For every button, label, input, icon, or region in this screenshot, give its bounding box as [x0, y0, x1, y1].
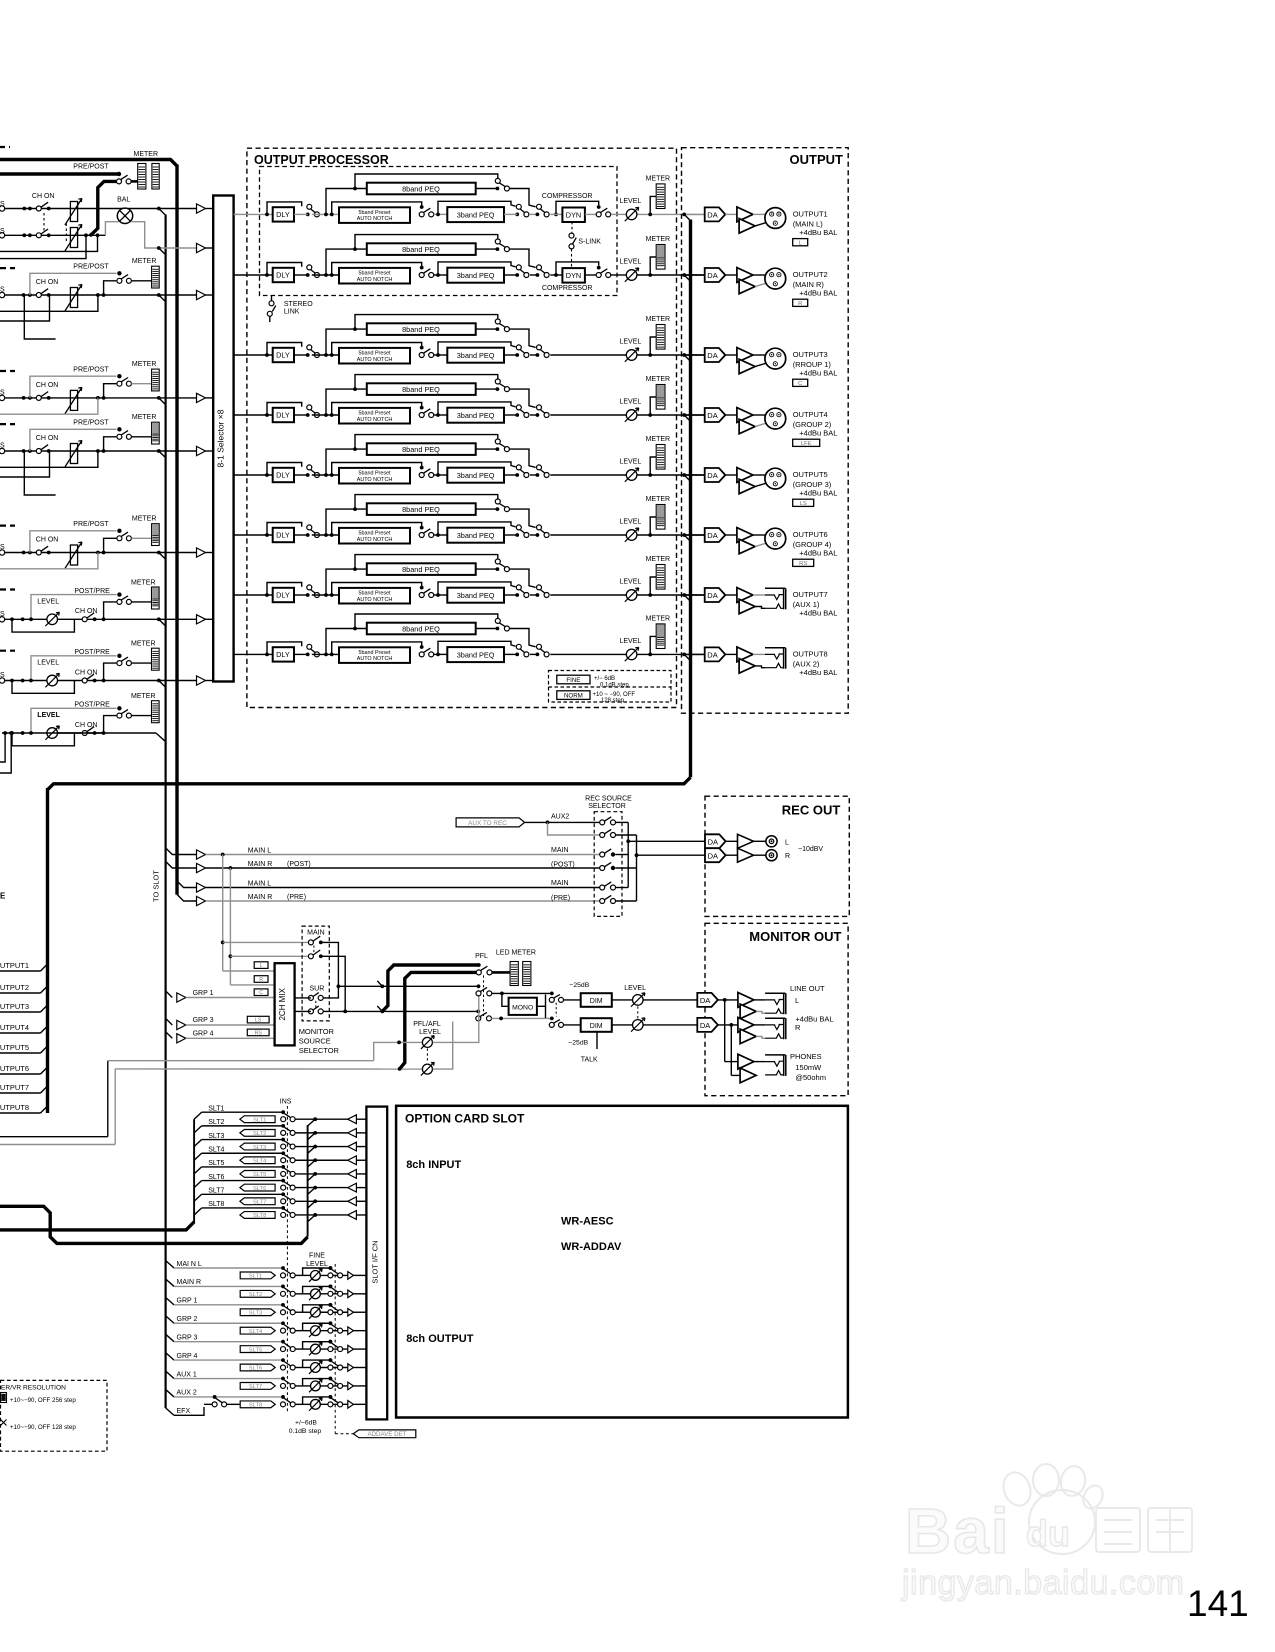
wire amp to rca L	[754, 840, 766, 842]
wire 8band input bracket	[326, 509, 367, 535]
svg-text:+4dBu BAL: +4dBu BAL	[799, 288, 837, 297]
svg-text:+4dBu BAL: +4dBu BAL	[799, 608, 837, 617]
wire da to amp	[725, 474, 737, 476]
wire 8band to sw4	[509, 389, 535, 407]
level pot	[626, 590, 637, 601]
svg-text:REC SOURCE: REC SOURCE	[585, 796, 632, 803]
wire L to 2ch mix	[223, 970, 275, 972]
switch after 5band	[420, 346, 424, 350]
dashed box main pair processor	[260, 167, 618, 296]
wire to meter junction	[638, 354, 705, 356]
svg-text:NORM: NORM	[564, 693, 583, 700]
switch dly bypass	[306, 593, 310, 597]
switch INS SLT4	[281, 1151, 285, 1155]
dac DA OUTPUT4	[705, 408, 726, 422]
dashed stub	[0, 423, 15, 425]
switch fine out SLT5	[329, 1340, 333, 1344]
wire to level	[611, 274, 627, 276]
node bus tap	[157, 551, 161, 555]
legend meter icon	[1, 1393, 7, 1403]
dac DA OUTPUT7	[705, 588, 726, 602]
dac DA rec L	[705, 834, 726, 848]
svg-text:+10~−90, OFF 128 step: +10~−90, OFF 128 step	[10, 1424, 76, 1431]
tag ADDAVE DET	[353, 1430, 416, 1438]
wire dly bypass bracket	[265, 533, 269, 537]
svg-text:3band PEQ: 3band PEQ	[457, 351, 495, 360]
svg-text:METER: METER	[646, 316, 671, 323]
wire 3band bypass bracket	[438, 641, 516, 654]
svg-text:+4dBu BAL: +4dBu BAL	[799, 428, 837, 437]
switch 8band out	[496, 387, 500, 391]
arrow to selector	[197, 615, 206, 624]
fader	[70, 545, 77, 565]
svg-text:EFX: EFX	[177, 1408, 191, 1415]
wire 8band input bracket	[326, 569, 367, 595]
wire 5band bypass bracket	[332, 403, 422, 416]
svg-text:GRP 3: GRP 3	[193, 1017, 214, 1024]
svg-text:SLT7: SLT7	[253, 1199, 266, 1205]
wire: channel line L2 y=235.3	[0, 233, 5, 238]
wire to level	[550, 534, 626, 536]
svg-text:LINK: LINK	[284, 309, 300, 316]
node bus tap	[157, 449, 161, 453]
level pot fine SLT3	[311, 1307, 321, 1317]
svg-text:TO SLOT: TO SLOT	[152, 870, 161, 902]
wire line	[5, 618, 47, 620]
wire knob out	[321, 1274, 348, 1276]
wire POST riser	[102, 293, 106, 297]
svg-text:MONITOR: MONITOR	[299, 1027, 335, 1036]
arrow card output	[348, 1364, 354, 1372]
wire bypass bracket	[303, 1286, 331, 1293]
label box RS	[793, 559, 814, 566]
svg-text:DA: DA	[707, 591, 717, 600]
switch fine in SLT3	[281, 1303, 285, 1307]
eq 8band PEQ	[367, 243, 476, 255]
switch after 3band	[515, 213, 519, 217]
wire PRE feed gray	[31, 656, 116, 681]
wire to level	[550, 594, 626, 596]
wire stub to collector	[308, 1133, 316, 1140]
svg-text:3band PEQ: 3band PEQ	[457, 591, 495, 600]
wire aux2 R drop	[548, 822, 603, 835]
switch mono R	[550, 1017, 554, 1021]
arrow to-slot	[197, 863, 206, 872]
node: dashed stub group1	[0, 146, 10, 148]
wire selector out stub	[615, 834, 636, 836]
switch fine in SLT6	[281, 1358, 285, 1362]
tag SLT6 ins	[240, 1184, 275, 1191]
node output bus tap	[682, 273, 686, 277]
svg-text:AUTO NOTCH: AUTO NOTCH	[357, 597, 393, 603]
svg-text:SLT1: SLT1	[249, 1274, 262, 1280]
switch after 3band	[515, 353, 519, 357]
wire meter feed	[131, 436, 151, 438]
switch dly bypass	[306, 653, 310, 657]
switch after 3band	[515, 533, 519, 537]
label box LFE	[793, 439, 820, 446]
tag SLT8 fine	[240, 1401, 275, 1408]
switch CH ON	[36, 550, 41, 555]
meter	[152, 524, 160, 546]
dashed stub	[0, 370, 15, 372]
svg-text:SLT7: SLT7	[249, 1384, 262, 1390]
wire da L out	[718, 999, 738, 1001]
svg-text:POST/PRE: POST/PRE	[74, 702, 110, 709]
svg-text:GRP 4: GRP 4	[177, 1353, 198, 1360]
svg-text:du: du	[1026, 1513, 1070, 1554]
wire line after pot	[58, 618, 197, 620]
svg-text:8band PEQ: 8band PEQ	[402, 565, 440, 574]
level pot fine SLT1	[311, 1271, 321, 1281]
wire dim to knob L	[612, 999, 633, 1001]
switch POST/PRE	[117, 592, 121, 596]
wire bypass bracket	[303, 1305, 331, 1312]
wire MAIN R PRE tap	[177, 894, 197, 901]
amplifier pair OUTPUT4	[737, 408, 753, 423]
wire 8band top bypass	[353, 507, 357, 511]
svg-text:LED METER: LED METER	[496, 950, 536, 957]
switch INS SLT7	[281, 1192, 285, 1196]
switch eq bypass	[536, 653, 540, 657]
wire: g1 return lines	[0, 235, 98, 251]
svg-text:L: L	[795, 996, 799, 1005]
eq 8band PEQ	[367, 383, 476, 395]
svg-text:SLOT I/F CN: SLOT I/F CN	[370, 1240, 379, 1283]
svg-text:PRE/POST: PRE/POST	[73, 264, 109, 271]
svg-text:LS: LS	[800, 501, 807, 507]
svg-text:MONITOR OUT: MONITOR OUT	[749, 929, 841, 944]
svg-text:OUTPUT4: OUTPUT4	[793, 410, 828, 419]
switch main L	[308, 940, 313, 945]
wire to level	[550, 354, 626, 356]
wire to level	[550, 653, 626, 655]
svg-text:DA: DA	[707, 471, 717, 480]
delay DLY row2	[273, 268, 294, 282]
wire 8band to sw4	[509, 509, 535, 527]
wire stub to collector	[308, 1147, 316, 1154]
wire PRE feed gray	[31, 708, 116, 733]
wire line	[5, 680, 47, 682]
dac DA OUTPUT6	[705, 528, 726, 542]
svg-text:POST/PRE: POST/PRE	[74, 649, 110, 656]
switch INS SLT2	[281, 1124, 285, 1128]
switch CH ON L1	[36, 206, 41, 211]
svg-text:METER: METER	[646, 176, 671, 183]
wire amp to xlr upper	[753, 354, 765, 356]
meter g1 right	[152, 164, 159, 190]
wire to card	[295, 1187, 348, 1189]
svg-text:+/− 6dB: +/− 6dB	[594, 676, 615, 682]
svg-text:OUTPUT PROCESSOR: OUTPUT PROCESSOR	[254, 153, 389, 167]
svg-text:GRP 4: GRP 4	[193, 1030, 214, 1037]
switch eq bypass	[536, 353, 540, 357]
wire knob out	[321, 1385, 348, 1387]
svg-text:LEVEL: LEVEL	[37, 660, 59, 667]
wire 5band bypass bracket	[332, 642, 422, 655]
wire to 3band	[434, 534, 448, 536]
svg-text:LEVEL: LEVEL	[620, 339, 642, 346]
wire: thick post pickup g1	[91, 181, 116, 235]
tag SLT7 ins	[240, 1198, 275, 1205]
terminal	[0, 395, 5, 400]
wire 8band to sw4	[509, 449, 535, 467]
wire amp to xlr upper	[753, 474, 765, 476]
wire under loop	[12, 681, 74, 694]
wire stub to collector	[308, 1215, 316, 1222]
dashed box MONITOR OUT	[705, 923, 848, 1095]
switch dly bypass	[306, 213, 310, 217]
svg-text:DA: DA	[700, 996, 710, 1005]
svg-text:DLY: DLY	[276, 271, 290, 280]
wire channel line	[5, 552, 197, 554]
legend NORM tag	[557, 691, 590, 700]
wire meter bracket	[650, 397, 656, 415]
svg-text:C: C	[798, 381, 802, 387]
wire amp to xlr upper	[753, 213, 765, 215]
svg-text:8band PEQ: 8band PEQ	[402, 325, 440, 334]
svg-text:OUTPUT6: OUTPUT6	[0, 1064, 29, 1073]
wire to 3band	[434, 274, 448, 276]
wire to 3band	[434, 213, 448, 215]
wire slot send label line AUX 1	[166, 1371, 174, 1379]
wire post riser	[104, 716, 117, 733]
switch 8band out	[496, 567, 500, 571]
svg-text:−25dB: −25dB	[568, 1040, 588, 1047]
svg-text:R: R	[795, 1023, 801, 1032]
wire 3band bypass bracket	[438, 462, 516, 475]
svg-text:DA: DA	[707, 531, 717, 540]
svg-text:5band Preset: 5band Preset	[358, 410, 391, 416]
switch 8band out	[496, 327, 500, 331]
node output bus tap	[682, 413, 686, 417]
switch INS SLT6	[281, 1179, 285, 1183]
switch after 5band	[420, 645, 424, 649]
meter	[152, 701, 160, 723]
wire 8band top bypass	[353, 327, 357, 331]
arrow card input	[348, 1197, 357, 1206]
wire to meter junction	[638, 653, 705, 655]
wire to card	[295, 1146, 348, 1148]
tag SLT2 fine	[240, 1290, 275, 1297]
svg-text:SLT6: SLT6	[249, 1366, 262, 1372]
switch fine in SLT8	[281, 1395, 285, 1399]
switch after 5band	[420, 586, 424, 590]
switch PFL R	[476, 1010, 480, 1014]
terminal	[0, 550, 5, 555]
wire knob out	[321, 1311, 348, 1313]
level pot monitor L	[633, 995, 644, 1006]
switch eq bypass	[536, 413, 540, 417]
wire knob out	[321, 1367, 348, 1369]
svg-text:jingyan.baidu.com: jingyan.baidu.com	[901, 1564, 1185, 1602]
wire to knob	[295, 1330, 310, 1332]
svg-text:3band PEQ: 3band PEQ	[457, 271, 495, 280]
svg-text:+/−6dB: +/−6dB	[295, 1419, 317, 1426]
svg-text:DYN: DYN	[566, 271, 581, 280]
switch CH ON	[36, 293, 41, 298]
wire meter feed	[131, 662, 151, 664]
svg-text:−10dBV: −10dBV	[798, 846, 823, 853]
wire slot send label line GRP 4	[166, 1353, 174, 1361]
switch after 5band	[420, 266, 424, 270]
svg-text:MONO: MONO	[512, 1005, 533, 1012]
svg-text:LEVEL: LEVEL	[624, 985, 646, 992]
svg-text:(POST): (POST)	[287, 861, 311, 868]
wire 3band bypass bracket	[438, 402, 516, 415]
switch after 3band	[515, 653, 519, 657]
fader	[70, 288, 77, 308]
wire EFX routing	[174, 1407, 204, 1415]
svg-text:+4dBu BAL: +4dBu BAL	[799, 488, 837, 497]
wire amp to jack L	[754, 999, 765, 1001]
selector box 8-1 Selector x8	[213, 196, 233, 682]
wire PRE riser gray	[30, 429, 117, 451]
wire 8band to sw4	[509, 249, 535, 267]
svg-text:CH ON: CH ON	[75, 722, 98, 729]
wire channel line	[5, 450, 197, 452]
arrow selector in2	[197, 243, 206, 252]
wire: top thick bus line to PRE bus	[0, 160, 177, 167]
wire da to amp	[725, 274, 737, 276]
wire diag stubs at monitor dots	[377, 981, 382, 986]
wire selector out stub	[615, 867, 636, 869]
svg-text:DLY: DLY	[276, 650, 290, 659]
svg-text:R: R	[259, 977, 263, 983]
wire dly bypass bracket	[265, 473, 269, 477]
dashed stub	[0, 524, 15, 526]
wire amp to jack R	[754, 1024, 765, 1026]
wire 8band output	[476, 508, 498, 510]
amplifier pair OUTPUT7	[737, 588, 753, 603]
svg-text:AUX 2: AUX 2	[177, 1390, 197, 1397]
wire output line OUTPUT4	[686, 414, 705, 416]
wire phones amp feed upper	[725, 1061, 738, 1063]
wire line to notch	[294, 213, 308, 215]
arrow to-slot	[197, 896, 206, 905]
wire 8band top bypass	[353, 447, 357, 451]
wire line to notch	[294, 354, 308, 356]
eq 8band PEQ	[367, 503, 476, 515]
wire selector out stub	[615, 821, 628, 823]
delay DLY row3	[273, 348, 294, 362]
wire line to notch	[294, 534, 308, 536]
svg-text:L: L	[260, 963, 263, 969]
gang dashed pfl	[483, 975, 485, 1016]
switch dly bypass	[306, 533, 310, 537]
svg-text:0.1dB step: 0.1dB step	[600, 682, 629, 688]
wire amp to xlr lower	[755, 483, 766, 486]
wire SLT8 send line	[194, 1208, 202, 1215]
svg-text:5band Preset: 5band Preset	[358, 350, 391, 356]
wire PFL/AFL gray feed 2	[0, 1144, 115, 1146]
svg-text:8ch INPUT: 8ch INPUT	[406, 1159, 461, 1171]
wire da R out	[718, 1024, 740, 1026]
svg-text:SLT6: SLT6	[208, 1174, 224, 1181]
wire POST riser	[102, 396, 106, 400]
tag SLT4 ins	[240, 1157, 275, 1164]
svg-text:141: 141	[1187, 1583, 1249, 1624]
wire sur out L	[323, 986, 338, 998]
wire monitor R line	[345, 1010, 478, 1012]
connector RCA R	[766, 850, 777, 861]
svg-text:DIM: DIM	[590, 998, 603, 1005]
wire channel line	[5, 294, 197, 296]
wire processor row3 main line	[234, 354, 273, 356]
wire extra under lines	[0, 295, 50, 321]
arrow card output	[348, 1290, 354, 1298]
svg-text:@50ohm: @50ohm	[795, 1073, 826, 1082]
svg-text:SLT7: SLT7	[208, 1187, 224, 1194]
switch rec selector row4	[600, 866, 605, 871]
wire to card	[295, 1159, 348, 1161]
svg-text:CH ON: CH ON	[36, 382, 59, 389]
meter row4	[656, 385, 665, 410]
wire to level	[611, 213, 627, 215]
svg-text:PFL: PFL	[475, 953, 488, 960]
label box R	[793, 299, 808, 306]
switch after 3band	[515, 473, 519, 477]
svg-text:WR-ADDAV: WR-ADDAV	[561, 1241, 622, 1253]
gang dashed monitor knobs	[637, 1006, 639, 1018]
wire 3band bypass bracket	[438, 522, 516, 535]
svg-text:8band PEQ: 8band PEQ	[402, 385, 440, 394]
switch after 5band	[420, 526, 424, 530]
wire mono out	[537, 1005, 546, 1007]
dashed box monitor source selector MAIN	[302, 926, 329, 1021]
box OPTION CARD SLOT	[396, 1106, 848, 1418]
wire to dim R	[564, 1024, 581, 1026]
dashed box OUTPUT	[682, 148, 849, 714]
svg-text:5band Preset: 5band Preset	[358, 530, 391, 536]
switch fine in SLT2	[281, 1285, 285, 1289]
level pot	[47, 614, 58, 625]
switch PRE/POST g1	[117, 172, 121, 176]
wire bypass bracket	[303, 1268, 331, 1275]
switch fine out SLT8	[329, 1395, 333, 1399]
tag SLT6 fine	[240, 1364, 275, 1371]
arrow card output	[348, 1327, 354, 1335]
wire output line OUTPUT6	[686, 534, 705, 536]
node output bus tap	[682, 353, 686, 357]
delay DLY row5	[273, 468, 294, 482]
svg-text:SLT8: SLT8	[249, 1403, 262, 1409]
wire PRE feed gray	[31, 595, 116, 620]
svg-text:5band Preset: 5band Preset	[358, 590, 391, 596]
eq 3band PEQ	[447, 408, 504, 423]
wire PFL/AFL gray feed 1	[0, 1136, 108, 1138]
svg-text:RS: RS	[255, 1030, 263, 1036]
wire output line OUTPUT3	[686, 354, 705, 356]
wire to DYN	[550, 274, 562, 276]
svg-text:METER: METER	[132, 414, 157, 421]
svg-text:SLT5: SLT5	[253, 1172, 266, 1178]
arrow card output	[348, 1382, 354, 1390]
switch INS SLT5	[281, 1165, 285, 1169]
switch fine out SLT4	[329, 1321, 333, 1325]
meter	[152, 369, 160, 391]
svg-text:PRE/POST: PRE/POST	[73, 366, 109, 373]
switch rec selector row2	[600, 833, 605, 838]
connector XLR OUTPUT6	[765, 528, 786, 549]
svg-text:CH ON: CH ON	[75, 608, 98, 615]
svg-text:GRP 2: GRP 2	[177, 1316, 198, 1323]
wire meter feed	[131, 383, 151, 385]
wire to knob	[295, 1293, 310, 1295]
tag SLT5 fine	[240, 1346, 275, 1353]
eq 3band PEQ	[447, 647, 504, 662]
svg-text:+4dBu BAL: +4dBu BAL	[795, 1015, 833, 1024]
